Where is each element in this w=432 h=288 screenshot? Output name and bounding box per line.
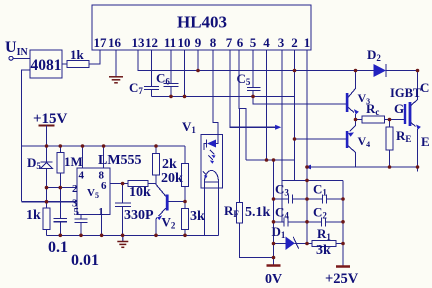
- svg-text:4081: 4081: [31, 57, 62, 74]
- svg-text:5: 5: [250, 35, 257, 50]
- ground (under pin 16): [109, 77, 123, 83]
- capacitor C1: [307, 182, 343, 204]
- svg-text:HL403: HL403: [177, 13, 227, 32]
- wire pin10 down to rail: [184, 50, 186, 96]
- svg-text:1k: 1k: [70, 47, 85, 62]
- wire 555 pin4 to rail: [82, 146, 84, 168]
- node 0V terminal: [265, 266, 282, 288]
- capacitor C2: [307, 205, 343, 227]
- svg-text:9: 9: [195, 35, 202, 50]
- resistor 10k: [128, 181, 156, 201]
- op-amp U2 4081 gate box: [30, 50, 62, 78]
- svg-text:2k: 2k: [162, 157, 177, 172]
- wire pin13 main horizontal bus to D2: [138, 50, 374, 71]
- svg-text:1M: 1M: [64, 154, 83, 169]
- svg-text:4: 4: [263, 35, 270, 50]
- svg-text:0V: 0V: [265, 272, 282, 287]
- capacitor 330P: [115, 184, 154, 236]
- wire pin16 to ground: [115, 50, 117, 77]
- wire pin7 down to pin2 column: [230, 50, 280, 127]
- svg-text:1k: 1k: [26, 208, 41, 223]
- node +15V supply: [33, 111, 68, 146]
- wire 555 pin6 line to 10k: [110, 183, 128, 185]
- wire 555 pin1 to ground rail: [101, 214, 103, 235]
- wire pin1 long column down through grid: [306, 50, 308, 244]
- svg-text:0.01: 0.01: [71, 252, 99, 269]
- wire pin12 down to C7: [151, 50, 153, 87]
- wire 4081 lower input feedback from LM555 output: [22, 70, 30, 202]
- svg-text:0.1: 0.1: [48, 239, 68, 256]
- wire node A horizontal y159: [246, 159, 295, 161]
- svg-text:10: 10: [178, 35, 191, 50]
- op-amp U3 LM555: [72, 153, 142, 218]
- wire row0 pin1 to +25V column: [282, 179, 343, 181]
- resistor 20k: [161, 146, 189, 209]
- svg-text:3k: 3k: [316, 243, 331, 258]
- capacitor C4: [274, 205, 308, 227]
- capacitor 0.1: [48, 188, 68, 256]
- wire +15V rail y146: [22, 145, 185, 147]
- svg-text:330P: 330P: [124, 208, 154, 223]
- op-amp U1 HL403 driver IC box: [92, 5, 311, 50]
- wire pin2 down to bus and lower grid: [294, 50, 296, 180]
- wire ground rail y235.3: [47, 234, 219, 236]
- svg-text:G: G: [394, 101, 404, 116]
- resistor 3k (left): [182, 209, 206, 236]
- resistor R1 3k: [307, 226, 343, 258]
- svg-text:2: 2: [72, 183, 78, 195]
- transistor IGBT: [390, 80, 430, 172]
- svg-text:IGBT: IGBT: [390, 86, 422, 100]
- svg-text:2: 2: [291, 35, 298, 50]
- svg-text:11: 11: [164, 35, 176, 50]
- svg-text:3: 3: [278, 35, 285, 50]
- optocoupler V1: [182, 119, 222, 188]
- svg-text:17: 17: [94, 35, 108, 50]
- resistor R 1k (top): [62, 47, 100, 68]
- svg-text:13: 13: [132, 35, 146, 50]
- resistor RE: [386, 120, 411, 168]
- resistor 1k (left): [26, 202, 50, 236]
- wire decoupling rail y97.5: [152, 95, 295, 97]
- resistor Rc: [356, 101, 405, 123]
- svg-text:5: 5: [74, 206, 80, 218]
- node +25V terminal: [325, 267, 359, 288]
- wire V4 base from rail corner: [295, 96, 346, 139]
- capacitor 0.01 on pin5: [71, 214, 99, 269]
- wire 0V vertical: [273, 160, 275, 266]
- wire 555 pin8 to rail: [103, 146, 105, 168]
- capacitor C5: [237, 71, 346, 104]
- diode D5 zener: [27, 146, 53, 202]
- node Uin input terminal: [5, 39, 30, 60]
- wire pin8 to optocoupler anode: [213, 50, 218, 134]
- wire output line y201.7: [22, 201, 77, 203]
- svg-text:LM555: LM555: [98, 153, 142, 168]
- transistor V4: [346, 120, 370, 168]
- resistor 1M: [57, 146, 83, 188]
- resistor RF 5.1k: [224, 109, 274, 258]
- capacitor C7: [129, 80, 159, 96]
- wire pin5 down through C5 to V3 base: [252, 50, 254, 88]
- svg-text:3k: 3k: [190, 209, 205, 224]
- wire opto right lead: [218, 182, 220, 235]
- resistor 2k: [153, 146, 178, 184]
- wire pin9 down to bus: [197, 50, 199, 71]
- svg-text:C: C: [420, 80, 429, 95]
- wire opto emitter to ground rail: [204, 182, 206, 235]
- svg-text:20k: 20k: [161, 171, 183, 186]
- svg-text:10k: 10k: [129, 185, 151, 200]
- wire pin11 down to C6: [170, 50, 172, 84]
- capacitor C3: [274, 182, 308, 204]
- svg-text:+25V: +25V: [325, 271, 359, 287]
- svg-text:12: 12: [145, 35, 158, 50]
- diode D2: [367, 47, 418, 99]
- transistor V3: [346, 71, 370, 120]
- capacitor C6: [156, 71, 179, 97]
- wire pin4 down to node A line: [266, 50, 268, 160]
- wire line C emitter rail y166.3 with arrow: [305, 165, 418, 170]
- svg-text:1: 1: [304, 35, 311, 50]
- wire pin6 jog down to node A: [239, 50, 246, 160]
- diode D1: [272, 224, 308, 250]
- svg-text:6: 6: [101, 180, 107, 192]
- svg-text:6: 6: [237, 35, 244, 50]
- ground (main): [117, 235, 128, 247]
- svg-text:8: 8: [210, 35, 217, 50]
- wire trigger line y187.6: [47, 187, 78, 189]
- svg-text:7: 7: [226, 35, 233, 50]
- svg-text:4: 4: [79, 170, 85, 182]
- svg-text:5.1k: 5.1k: [245, 205, 271, 220]
- wire col3 +25V vertical: [342, 180, 344, 266]
- svg-text:E: E: [421, 134, 430, 149]
- wire pin3 down to C4 row: [281, 50, 283, 222]
- transistor V2: [156, 184, 185, 236]
- svg-text:16: 16: [108, 35, 122, 50]
